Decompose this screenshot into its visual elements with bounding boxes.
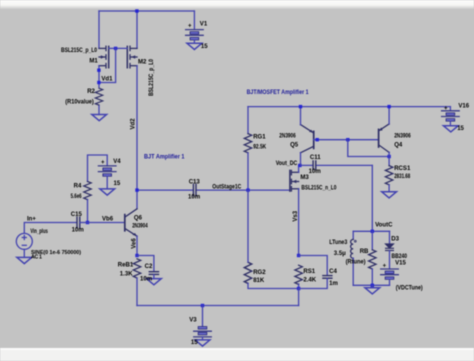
wire top rail (99, 10, 194, 12)
wire R4 top to V4 (88, 155, 108, 182)
svg-text:LTune3: LTune3 (329, 240, 348, 246)
wire Q4 emitter lead (388, 107, 390, 125)
transistor M1 (99, 46, 109, 68)
capacitor C4 (323, 276, 332, 279)
svg-text:15: 15 (114, 181, 121, 187)
wire M1 drain down (98, 66, 100, 87)
bottom status strip (0, 348, 474, 361)
wire top rail right (248, 106, 450, 108)
svg-text:M3: M3 (300, 175, 309, 181)
ground under V3 (195, 340, 210, 346)
wire LTune3 bottom lead (352, 258, 354, 285)
wire C4 top (299, 256, 328, 276)
svg-text:RS1: RS1 (303, 269, 315, 275)
svg-text:15: 15 (191, 340, 198, 346)
wire bottom rail (137, 305, 299, 307)
svg-text:OutStage1C: OutStage1C (212, 185, 242, 191)
source Vin_plus (16, 233, 32, 249)
svg-text:2N3906: 2N3906 (394, 133, 411, 139)
transistor Q4 (379, 124, 390, 152)
capacitor C11 (313, 161, 316, 170)
battery V1 (186, 30, 204, 40)
wire RG1 bottom lead (247, 153, 249, 190)
wire Q6 emitter (136, 236, 138, 256)
svg-text:ReB1: ReB1 (118, 263, 134, 269)
ground under RCS1 (382, 192, 397, 198)
svg-text:(VDCTune): (VDCTune) (396, 285, 423, 291)
svg-text:Vd2: Vd2 (131, 118, 137, 130)
svg-text:VoutC: VoutC (375, 223, 393, 229)
svg-text:Vb6: Vb6 (102, 217, 114, 223)
wire Q4 collector lead (388, 152, 390, 165)
svg-text:BSL215C_p_L0: BSL215C_p_L0 (149, 58, 155, 96)
svg-text:15: 15 (457, 126, 464, 132)
svg-text:15: 15 (201, 44, 208, 50)
svg-text:2.4K: 2.4K (303, 277, 316, 283)
node gate link (114, 47, 117, 50)
node Vd1 (97, 81, 100, 84)
wire base to Q4 collector (348, 140, 389, 157)
ground under C2 (147, 279, 162, 285)
svg-text:+: + (188, 24, 192, 30)
wire shared base (314, 139, 379, 141)
svg-text:BSL215C_p_L0: BSL215C_p_L0 (61, 48, 98, 54)
resistor RCS1 (385, 166, 392, 185)
wire D3 top lead (389, 231, 391, 244)
wire M2 source lead (136, 11, 138, 48)
resistor RG1 (244, 134, 251, 153)
svg-text:Vout_DC: Vout_DC (276, 161, 298, 167)
inductor LTune3 (351, 239, 357, 258)
svg-text:10m: 10m (72, 227, 84, 233)
svg-text:R2: R2 (87, 89, 95, 95)
svg-text:(Rtune): (Rtune) (346, 260, 366, 266)
capacitor C2 (149, 272, 158, 275)
svg-text:V1: V1 (200, 22, 208, 28)
svg-text:C2: C2 (145, 264, 153, 270)
svg-text:RCS1: RCS1 (394, 166, 411, 172)
resistor RB (371, 231, 373, 250)
svg-text:C4: C4 (329, 269, 337, 275)
wire LTune3 top lead (352, 231, 354, 239)
svg-text:+: + (444, 106, 448, 112)
wire ReB1 bottom (136, 278, 138, 306)
wire to C2 (137, 256, 154, 272)
battery V3 (flipped) (194, 327, 212, 337)
svg-text:1m: 1m (329, 281, 338, 287)
ground under R2 (92, 115, 107, 121)
wire C11 to VoutC (371, 165, 373, 231)
battery V16 (442, 111, 460, 121)
svg-text:1.3K: 1.3K (120, 271, 133, 277)
ground under V4 (100, 189, 115, 195)
svg-text:10m: 10m (140, 276, 152, 282)
svg-text:BJT Amplifier 1: BJT Amplifier 1 (144, 153, 185, 160)
resistor R2 (95, 88, 102, 105)
svg-text:2N3904: 2N3904 (132, 223, 148, 229)
svg-text:RG1: RG1 (253, 135, 266, 141)
wire Q5 emitter lead (300, 107, 302, 125)
wire Vs3 (298, 189, 300, 256)
svg-text:R4: R4 (74, 184, 82, 190)
svg-text:C13: C13 (189, 179, 201, 185)
wire D3 to V15 (389, 251, 391, 270)
wire base to Q6 (88, 222, 125, 224)
svg-text:3.5µ: 3.5µ (334, 251, 346, 257)
wire M1 source lead (98, 11, 100, 48)
svg-text:2N3906: 2N3906 (279, 133, 296, 139)
resistor RG2 (244, 262, 251, 283)
svg-text:Vd1: Vd1 (101, 77, 113, 83)
transistor Q5 (301, 125, 314, 153)
wire R2 bottom (98, 106, 100, 115)
wire R4 bottom (87, 200, 89, 223)
svg-text:BJT/MOSFET Amplifier 1: BJT/MOSFET Amplifier 1 (247, 89, 309, 96)
node Vout_DC (298, 164, 301, 167)
svg-text:92.5K: 92.5K (253, 145, 267, 151)
node VoutC (371, 230, 374, 233)
battery V4 (98, 166, 116, 176)
node Vd2/OutStage tap (135, 188, 138, 191)
transistor M3 (290, 170, 299, 191)
node V3 tap (201, 304, 204, 307)
wire tank top (353, 230, 389, 232)
wire V16 lead (449, 107, 451, 111)
wire RG1 top lead (247, 107, 249, 134)
wire tank bottom (353, 284, 389, 286)
svg-text:V3: V3 (189, 318, 197, 324)
ground tank (365, 288, 380, 294)
svg-text:V16: V16 (458, 104, 469, 110)
node RS1 bottom (297, 287, 300, 290)
wire Vout_DC (299, 164, 313, 166)
wire Q5 collector lead (300, 153, 302, 166)
svg-text:D3: D3 (391, 237, 399, 243)
wire input left (24, 223, 76, 234)
svg-text:Vin_plus: Vin_plus (30, 229, 48, 235)
svg-text:10m: 10m (188, 194, 200, 200)
svg-text:In+: In+ (27, 216, 36, 222)
svg-text:BB240: BB240 (392, 254, 408, 260)
ground under Vin_plus (17, 257, 32, 263)
transistor M2 (127, 46, 137, 68)
svg-text:(R10value): (R10value) (65, 100, 94, 106)
svg-text:Q5: Q5 (290, 142, 299, 148)
wire V3 lead (202, 306, 204, 327)
node tank ground (371, 284, 374, 287)
wire gate link (109, 47, 128, 49)
capacitor C15 (77, 217, 80, 228)
svg-text:2831.68: 2831.68 (394, 174, 410, 180)
wire C4 bottom (299, 278, 328, 288)
node Vs3/RS1 (297, 254, 300, 257)
svg-text:Q4: Q4 (394, 142, 403, 148)
svg-text:V4: V4 (113, 159, 121, 165)
resistor RS1 (295, 265, 302, 284)
svg-text:5.6e6: 5.6e6 (71, 194, 82, 200)
node RG1/RG2 (246, 188, 249, 191)
node on top rail (135, 9, 138, 12)
node emitter (135, 254, 138, 257)
wire M3 drain (298, 165, 300, 172)
svg-text:81K: 81K (253, 278, 265, 284)
svg-text:10m: 10m (309, 169, 321, 175)
ground under V1 (187, 43, 202, 49)
svg-text:V15: V15 (395, 261, 406, 267)
svg-text:+: + (101, 160, 105, 166)
svg-text:BSL215C_n_L0: BSL215C_n_L0 (301, 186, 337, 192)
wire V1 lead (193, 11, 195, 29)
svg-text:+: + (383, 263, 387, 269)
capacitor C13 (193, 184, 196, 195)
ground under V16 (443, 126, 458, 132)
svg-text:RB: RB (360, 249, 369, 255)
svg-text:Ve6: Ve6 (131, 238, 137, 249)
svg-text:AC 1: AC 1 (31, 255, 42, 261)
wire Vd2 M2 drain to Q6 collector (136, 66, 138, 209)
node Vd1 upper (97, 69, 100, 72)
svg-text:RG2: RG2 (253, 270, 266, 276)
wire gate to drain feedback (99, 48, 116, 82)
resistor ReB1 (133, 259, 140, 278)
svg-text:M2: M2 (138, 59, 147, 65)
svg-text:Vs3: Vs3 (293, 210, 299, 221)
resistor R4 (84, 181, 91, 199)
svg-text:M1: M1 (89, 58, 98, 64)
battery V15 (381, 269, 399, 279)
svg-text:Q6: Q6 (134, 215, 143, 221)
svg-text:C11: C11 (310, 155, 321, 161)
wire RCS1 bottom (388, 185, 390, 192)
transistor Q6 (125, 209, 137, 236)
wire OutStage1C (137, 189, 193, 191)
wire to bottom rail (298, 289, 300, 306)
diode D3 (varactor) (386, 244, 394, 251)
node base (86, 221, 89, 224)
svg-text:C15: C15 (71, 212, 83, 218)
